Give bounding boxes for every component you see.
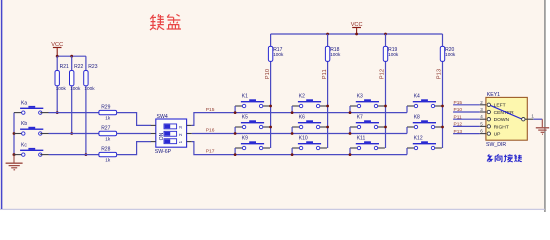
key K7: [356, 122, 379, 123]
wire column P10: [270, 34, 272, 148]
wire row Ka to R29: [40, 112, 48, 114]
key K10: [298, 143, 321, 144]
svg-text:UP: UP: [494, 132, 501, 138]
svg-text:R28: R28: [101, 147, 110, 153]
power VCC (left): [51, 42, 63, 56]
pin circle RIGHT: [487, 125, 490, 128]
pin SW4 right y=133.5: [187, 133, 192, 135]
ground (right): [536, 119, 549, 134]
wire row Kc left: [14, 154, 23, 156]
svg-text:DOWN: DOWN: [494, 117, 510, 123]
wire K12 right pin to column: [433, 147, 442, 149]
key K11: [356, 143, 379, 144]
wire R27 to SW4 pin 2: [117, 133, 151, 135]
junction node at R22 top: [70, 55, 73, 58]
wire K11 right pin to column: [376, 147, 385, 149]
svg-text:R23: R23: [88, 64, 97, 70]
pin circle UP: [487, 132, 490, 135]
svg-text:100k: 100k: [70, 86, 81, 91]
wire row Kc to R28: [40, 154, 48, 156]
wire SW4 to net P16: [192, 133, 407, 135]
svg-text:P15: P15: [454, 100, 463, 106]
svg-text:R21: R21: [60, 64, 69, 70]
key Kc: [20, 150, 43, 151]
junction rail col2: [326, 33, 329, 36]
junction node at R21 top: [56, 55, 59, 58]
pin 6 KEY1: [480, 133, 486, 135]
title 键盘: [150, 14, 164, 30]
wire pin1 to ground: [533, 118, 542, 120]
resistor R20 100k: [440, 46, 456, 61]
wire R23 stem: [85, 56, 87, 154]
junction column P12 row2: [384, 126, 387, 129]
wire K6 left stub: [292, 126, 301, 128]
junction stub row2 col1: [234, 132, 237, 135]
svg-text:P10: P10: [265, 69, 271, 79]
svg-text:P17: P17: [206, 149, 215, 155]
wire K3 right pin to column: [376, 105, 385, 107]
wire row Kb to R27: [40, 133, 48, 135]
svg-text:R22: R22: [74, 64, 83, 70]
svg-text:K2: K2: [299, 94, 305, 100]
wire K4 left stub: [407, 105, 416, 107]
switch SW4 SW-6P: [151, 114, 192, 155]
junction column P13 row2: [441, 126, 444, 129]
wire column P12: [385, 34, 387, 148]
pin SW4 right y=141.6: [187, 141, 192, 143]
junction stub row2 col3: [349, 132, 352, 135]
svg-text:P10: P10: [454, 107, 463, 113]
svg-text:K8: K8: [414, 115, 420, 121]
svg-text:K4: K4: [414, 94, 420, 100]
junction rail col3: [384, 33, 387, 36]
svg-text:P13: P13: [454, 129, 463, 135]
connector KEY1 SW_DIR: [486, 92, 527, 148]
junction column P11 row1: [326, 105, 329, 108]
svg-text:100k: 100k: [388, 52, 399, 57]
resistor R29 1k: [99, 105, 117, 121]
wire SW4 to net P17: [192, 142, 407, 155]
svg-text:SW_DIR: SW_DIR: [486, 142, 506, 148]
svg-text:K12: K12: [414, 136, 423, 142]
wire R28 to SW4 pin 3: [117, 142, 151, 155]
svg-text:SW-6P: SW-6P: [155, 149, 172, 155]
resistor R23 100k: [84, 64, 98, 91]
svg-text:100k: 100k: [56, 86, 67, 91]
wire K9 left stub: [235, 147, 244, 149]
pin 2 KEY1: [480, 104, 486, 106]
pin 5 KEY1: [480, 125, 486, 127]
junction stub row1 col3: [349, 111, 352, 114]
title char 盘: [167, 14, 181, 29]
key K9: [241, 143, 264, 144]
junction column P11 row2: [326, 126, 329, 129]
key Kb: [20, 129, 43, 130]
resistor R19 100k: [383, 46, 399, 61]
svg-text:1k: 1k: [105, 116, 111, 121]
pin circle CENTER: [487, 110, 490, 113]
wire R21 stem: [56, 56, 58, 112]
svg-text:Kc: Kc: [21, 142, 27, 148]
junction column P12 row1: [384, 105, 387, 108]
svg-text:1k: 1k: [105, 136, 111, 141]
svg-text:K11: K11: [357, 136, 366, 142]
svg-text:P15: P15: [206, 107, 215, 113]
pin circle DOWN: [487, 118, 490, 121]
junction column P13 row1: [441, 105, 444, 108]
wire column P11: [327, 34, 329, 148]
svg-text:1k: 1k: [105, 158, 111, 163]
junction left bus row C / ground: [13, 153, 16, 156]
wire K5 right pin to column: [261, 126, 270, 128]
text 多向按键: [487, 154, 522, 162]
svg-text:K3: K3: [357, 94, 363, 100]
svg-text:P11: P11: [454, 114, 463, 120]
wire left bus: [13, 113, 15, 155]
junction stub row1 col1: [234, 111, 237, 114]
wire K11 left stub: [350, 147, 359, 149]
key K5: [241, 122, 264, 123]
svg-text:K5: K5: [242, 115, 248, 121]
junction stub row3 col3: [349, 153, 352, 156]
resistor R27 1k: [99, 126, 117, 142]
key K4: [413, 101, 436, 102]
key K12: [413, 143, 436, 144]
resistor R17 100k: [268, 46, 284, 61]
svg-text:P16: P16: [206, 128, 215, 134]
svg-text:RIGHT: RIGHT: [494, 124, 509, 130]
junction column P10 row1: [269, 105, 272, 108]
wire K7 right pin to column: [376, 126, 385, 128]
junction R21 to row A: [56, 111, 59, 114]
svg-text:R29: R29: [101, 105, 110, 111]
key K6: [298, 122, 321, 123]
resistor R28 1k: [99, 147, 117, 163]
wire K12 left stub: [407, 147, 416, 149]
pin 3 KEY1: [480, 111, 486, 113]
junction R22 to row B: [70, 132, 73, 135]
svg-text:P13: P13: [437, 69, 443, 79]
pin SW4 right y=125.4: [187, 124, 192, 126]
svg-text:Kb: Kb: [21, 121, 27, 127]
wire K3 left stub: [350, 105, 359, 107]
wire K2 right pin to column: [318, 105, 327, 107]
wire K8 left stub: [407, 126, 416, 128]
junction left bus row B: [13, 132, 16, 135]
svg-text:ON: ON: [159, 132, 165, 140]
wire VCC rail (top): [271, 33, 443, 35]
wire K10 left stub: [292, 147, 301, 149]
wire K1 right pin to column: [261, 105, 270, 107]
svg-text:100k: 100k: [330, 52, 341, 57]
wire K7 left stub: [350, 126, 359, 128]
junction stub row3 col1: [234, 153, 237, 156]
resistor R21 100k: [55, 64, 69, 91]
wire VCC rail (left): [57, 55, 86, 57]
junction column P10 row2: [269, 126, 272, 129]
wire K1 left stub: [235, 105, 244, 107]
pin circle LEFT: [487, 103, 490, 106]
wire row Ka left: [14, 112, 23, 114]
key K3: [356, 101, 379, 102]
wire SW4 to net P15: [192, 113, 407, 126]
wire column P13: [442, 34, 444, 148]
wire net P12 to KEY1: [453, 125, 480, 127]
key K8: [413, 122, 436, 123]
svg-text:Ka: Ka: [21, 100, 27, 106]
wire K6 right pin to column: [318, 126, 327, 128]
ground: [6, 155, 23, 170]
pin 4 KEY1: [480, 118, 486, 120]
svg-text:P12: P12: [380, 69, 386, 79]
svg-text:P12: P12: [454, 122, 463, 128]
wire K2 left stub: [292, 105, 301, 107]
svg-text:K7: K7: [357, 115, 363, 121]
svg-text:100k: 100k: [84, 86, 95, 91]
key K1: [241, 101, 264, 102]
wire R29 to SW4 pin 1: [117, 113, 151, 126]
wire K5 left stub: [235, 126, 244, 128]
svg-text:R27: R27: [101, 126, 110, 132]
wire row Kb left: [14, 133, 23, 135]
wire K10 right pin to column: [318, 147, 327, 149]
junction stub row2 col2: [291, 132, 294, 135]
power VCC (top right): [351, 22, 363, 34]
svg-text:KEY1: KEY1: [487, 92, 500, 98]
wire K9 right pin to column: [261, 147, 270, 149]
svg-text:100k: 100k: [273, 52, 284, 57]
wire K4 right pin to column: [433, 105, 442, 107]
junction stub row3 col2: [291, 153, 294, 156]
junction stub row1 col2: [291, 111, 294, 114]
pin SW4 left y=141.6: [151, 141, 156, 143]
wire net P10 to KEY1: [453, 111, 480, 113]
junction rail VCC stem: [355, 33, 358, 36]
key Ka: [20, 108, 43, 109]
wire net P15 to KEY1: [453, 104, 480, 106]
junction R23 to row C: [85, 153, 88, 156]
pin SW4 left y=133.5: [151, 133, 156, 135]
svg-text:100k: 100k: [445, 52, 456, 57]
svg-text:K9: K9: [242, 136, 248, 142]
svg-text:K10: K10: [299, 136, 308, 142]
switch common diagonal: [490, 105, 521, 119]
svg-text:K1: K1: [242, 94, 248, 100]
svg-text:SW4: SW4: [157, 114, 168, 120]
svg-text:K6: K6: [299, 115, 305, 121]
wire net P13 to KEY1: [453, 133, 480, 135]
resistor R22 100k: [70, 64, 84, 91]
pin 1 KEY1 (common): [522, 118, 525, 121]
wire net P11 to KEY1: [453, 118, 480, 120]
pin SW4 left y=125.4: [151, 124, 156, 126]
svg-text:P11: P11: [322, 69, 328, 79]
wire K8 right pin to column: [433, 126, 442, 128]
resistor R18 100k: [325, 46, 341, 61]
key K2: [298, 101, 321, 102]
wire R22 stem: [71, 56, 73, 133]
